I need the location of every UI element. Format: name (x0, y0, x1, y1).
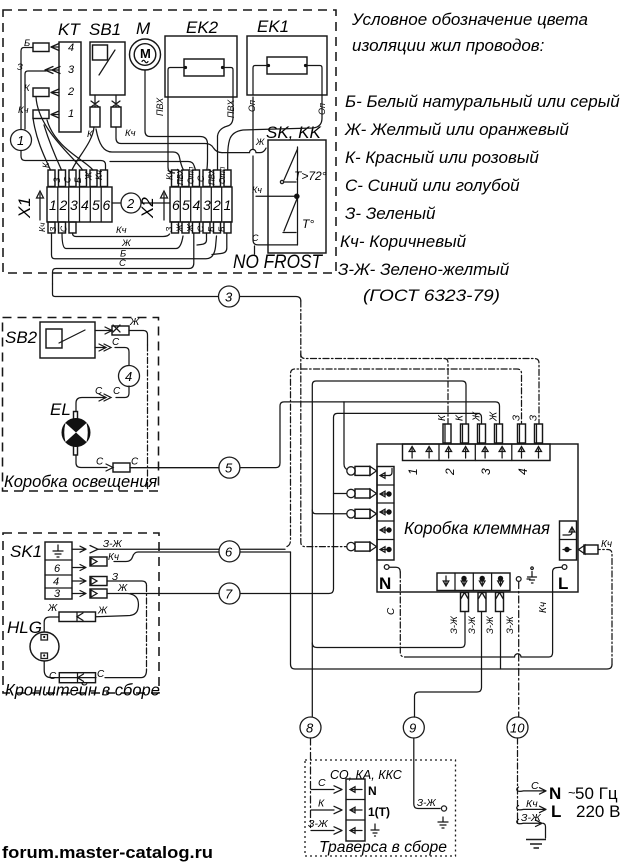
node 6 (219, 541, 240, 562)
svg-text:З-Ж: З-Ж (521, 812, 542, 824)
thermal switches SK KK label (266, 123, 321, 142)
svg-text:5: 5 (225, 461, 233, 476)
svg-text:7: 7 (225, 587, 233, 602)
branch to left lug 2 (334, 493, 348, 495)
labels С С at HLG С connector (49, 669, 105, 682)
wire З down to HLG С connector (105, 581, 147, 678)
connector X1 body (47, 187, 112, 222)
left side connectors (347, 466, 377, 551)
wire HLG bottom to С connector (44, 661, 96, 678)
fan wire to X1 lug 5 (47, 120, 93, 170)
svg-text:3: 3 (203, 197, 211, 213)
svg-text:З: З (512, 415, 523, 421)
KT pin numbers 4 3 2 1 (67, 42, 75, 120)
switch SK1 body (45, 542, 72, 599)
KT connector lug row 1 (Кч) (33, 110, 49, 119)
node 5 (219, 457, 240, 478)
svg-text:С: С (97, 669, 105, 680)
svg-text:С: С (95, 386, 103, 397)
wire label З (17, 62, 23, 73)
loop wire С below terminals (53, 233, 194, 284)
wire label Кч (18, 105, 29, 116)
terminal box bottom strip (437, 573, 510, 591)
KT pin 1 arrow (51, 111, 59, 118)
caption Коробка освещения (4, 473, 157, 491)
HLG label (7, 618, 42, 637)
terminal box body (377, 444, 578, 592)
svg-text:Кч: Кч (116, 225, 127, 236)
svg-text:Б: Б (217, 226, 227, 232)
legend lines (338, 92, 620, 305)
svg-text:Траверса в сборе: Траверса в сборе (319, 839, 447, 856)
svg-text:NO FROST: NO FROST (233, 252, 323, 273)
top pin lugs (443, 424, 543, 443)
right side block (560, 521, 577, 560)
node 7 (219, 583, 240, 604)
label T>72 (294, 169, 327, 183)
SK upper contact (280, 180, 296, 183)
legend title (351, 10, 588, 55)
svg-text:X2: X2 (138, 197, 157, 219)
N mains label (549, 784, 618, 803)
KT pin 4 arrow (51, 44, 59, 51)
wire З-Ж from SK1 row (98, 548, 285, 550)
svg-text:1: 1 (17, 133, 24, 148)
SB1 right wire joining Ж line (116, 127, 222, 153)
svg-text:Кч: Кч (94, 170, 104, 180)
svg-text:1: 1 (406, 468, 420, 475)
svg-text:SB2: SB2 (5, 328, 38, 347)
SK KK blue stub (254, 246, 256, 254)
KK lower blade (284, 198, 298, 232)
sweep wire to X2 lug 5 (96, 129, 184, 170)
svg-text:ПВХ: ПВХ (176, 168, 185, 185)
svg-text:З-Ж: З-Ж (103, 539, 122, 550)
svg-text:T>72°: T>72° (294, 169, 327, 183)
loop wire Б below terminals (52, 233, 217, 259)
stub wire X2 lug1 below (212, 233, 227, 255)
connector X2 label (138, 197, 157, 219)
label Кч (SK1) (108, 552, 119, 563)
wire node 4 to lamp (76, 386, 129, 412)
SK upper blade (284, 149, 298, 180)
wire node 5 feeder to Ж4 (130, 402, 500, 468)
NO FROST unit dashed enclosure (3, 10, 336, 273)
svg-text:З: З (17, 62, 23, 73)
svg-text:L: L (551, 802, 561, 821)
wire Кч into SK KK (256, 195, 294, 197)
svg-text:Ж: Ж (255, 137, 265, 147)
traverse assembly dotted enclosure (Траверса в сборе) (305, 760, 456, 856)
svg-text:N: N (379, 574, 391, 593)
svg-text:Оп: Оп (247, 100, 257, 112)
svg-text:Условное обозначение цвета: Условное обозначение цвета (351, 10, 588, 29)
svg-text:Кч: Кч (37, 222, 47, 232)
label С at SK KK (252, 233, 259, 243)
heater EK2 label (186, 18, 219, 37)
X1 numbers (49, 197, 111, 213)
watermark forum.master-catalog.ru (2, 843, 213, 862)
label Кч right of box (601, 539, 612, 550)
svg-text:Б: Б (73, 177, 83, 183)
SK1 З connector (90, 577, 107, 586)
switch SB2 body (40, 322, 95, 358)
NO FROST caption (233, 252, 323, 273)
wire Ж into SK KK (222, 148, 266, 153)
fan wire KT row2 to X1 lug 4 (36, 97, 83, 170)
svg-text:Ж- Желтый или оранжевый: Ж- Желтый или оранжевый (344, 120, 569, 139)
svg-text:Кч- Коричневый: Кч- Коричневый (340, 232, 467, 251)
svg-text:ПВХ: ПВХ (208, 168, 217, 185)
З-Ж splice arrow (90, 546, 98, 553)
svg-text:Ж: Ж (129, 317, 140, 328)
SK1 pin numbers (53, 563, 61, 600)
node 2 tie line (112, 202, 170, 204)
label ПВХ left of EK2 (155, 97, 165, 116)
svg-text:KT: KT (58, 20, 81, 39)
svg-text:С- Синий или голубой: С- Синий или голубой (345, 176, 520, 195)
top strip arrows (409, 447, 541, 459)
SK1 Кч connector (90, 557, 107, 566)
З-Ж pins below box (461, 593, 504, 612)
EK2 left lead to X2 lug 6 (168, 97, 175, 173)
lamp EL label (50, 400, 71, 419)
svg-text:Кч: Кч (125, 128, 136, 139)
svg-text:Б- Белый натуральный или серый: Б- Белый натуральный или серый (345, 92, 620, 111)
N terminal (379, 565, 391, 593)
labels С С at lamp connector (96, 457, 139, 468)
branch Кч to L mains (517, 806, 546, 813)
wire Кч bus to connector (291, 550, 613, 670)
thermostat KT body (59, 42, 81, 132)
terminal box top strip (403, 444, 551, 461)
label С below (119, 258, 126, 269)
switch SB2 label (5, 328, 38, 347)
svg-text:(ГОСТ 6323-79): (ГОСТ 6323-79) (363, 286, 500, 305)
label Кч at SK KK (252, 185, 262, 195)
X2 numbers (172, 197, 231, 213)
wire feeder F1 to pins К1 З6 (301, 354, 539, 424)
svg-text:L: L (558, 574, 568, 593)
top pin labels К К Ж Ж З З (437, 411, 540, 422)
loop wire Ж below terminals (62, 233, 183, 249)
svg-text:С: С (196, 225, 206, 232)
bottom strip arrows and dots (443, 576, 503, 586)
heater EK1 element (267, 57, 307, 74)
label С under N (386, 607, 397, 615)
X1 orientation arrow (37, 191, 44, 220)
svg-text:SB1: SB1 (89, 20, 121, 39)
caption Траверса в сборе (319, 839, 447, 856)
svg-text:З-Ж: З-Ж (417, 798, 436, 809)
svg-text:6: 6 (225, 544, 233, 559)
З-Ж pin labels (449, 615, 516, 634)
svg-text:ПВХ: ПВХ (226, 99, 236, 118)
svg-text:4: 4 (125, 369, 132, 384)
label З-Ж (SK1) (103, 539, 122, 550)
svg-text:К- Красный или розовый: К- Красный или розовый (345, 148, 539, 167)
svg-text:5: 5 (182, 197, 190, 213)
earth terminal circle (516, 577, 521, 582)
heater EK2 enclosure (165, 36, 237, 97)
motor wire to X2 lug 3 (145, 70, 208, 170)
SB1 contact detail (93, 45, 116, 75)
wire label К (24, 83, 31, 94)
svg-text:1: 1 (49, 197, 57, 213)
svg-text:2: 2 (212, 197, 221, 213)
label ПВХ right of EK2 (226, 99, 236, 118)
svg-text:6: 6 (103, 197, 111, 213)
svg-text:Кч: Кч (538, 602, 549, 613)
label Кч below (116, 225, 127, 236)
SB1 connector lugs (90, 107, 121, 127)
svg-text:С: С (386, 607, 397, 615)
X1 lower connector lugs (48, 222, 76, 233)
caption Коробка клеммная (404, 518, 550, 538)
HLG Ж double connector (59, 612, 96, 622)
svg-text:Кч: Кч (601, 539, 612, 550)
wire HLG top to Ж connector (44, 617, 59, 632)
connector X2 body (170, 187, 232, 222)
SK1 Ж connector (90, 589, 107, 598)
label Кч under L (538, 602, 549, 613)
label С (mains) (531, 780, 539, 792)
svg-text:Кронштейн в сборе: Кронштейн в сборе (5, 682, 160, 700)
svg-text:изоляции жил проводов:: изоляции жил проводов: (352, 36, 545, 55)
terminal box left strip (377, 467, 394, 561)
SK1 row arrows (72, 546, 86, 596)
svg-text:9: 9 (409, 721, 416, 736)
svg-text:М: М (140, 46, 151, 61)
earth symbol at bottom strip (527, 567, 537, 583)
left strip arrows and dots (380, 469, 392, 553)
loop wire Кч below terminals (73, 233, 170, 237)
wire lamp to С connector (76, 455, 107, 468)
svg-text:Отп: Отп (218, 166, 227, 184)
lamp EL (62, 412, 90, 456)
wire З-Ж pin3 to Кч line (500, 612, 502, 670)
KT pin 2 arrow (51, 89, 59, 96)
wire label Кч (motor) (125, 128, 136, 139)
svg-text:6: 6 (54, 563, 61, 575)
wire node 8 to traverse box (310, 738, 312, 828)
wire Ж hook to HLG top connector (96, 594, 138, 617)
SK KK body (268, 140, 326, 253)
wire З-Ж pin2 to node 9 (415, 612, 482, 718)
svg-text:T°: T° (302, 217, 314, 231)
svg-text:Ж: Ж (84, 171, 94, 181)
svg-text:X1: X1 (15, 197, 34, 219)
X1 upper lug labels К З С Б Ж Кч (41, 162, 104, 183)
wire label К (SB1) (87, 129, 94, 140)
svg-text:З-Ж: З-Ж (505, 615, 516, 634)
EK2 element leads (168, 68, 233, 98)
svg-text:2: 2 (126, 196, 135, 211)
X1 lower lug labels (37, 222, 69, 232)
KT connector lug row 4 (Б) (33, 43, 49, 52)
svg-text:Ж: Ж (489, 411, 500, 422)
svg-text:Отп: Отп (187, 166, 196, 184)
caption Кронштейн в сборе (5, 682, 160, 700)
svg-text:Кч: Кч (18, 105, 29, 116)
svg-text:SK, KK: SK, KK (266, 123, 321, 142)
label З-Ж (mains) (521, 812, 542, 824)
earth wire to node 10 (518, 582, 520, 718)
SK KK inner conductor (297, 147, 299, 245)
branch З-Ж to earth (517, 819, 546, 838)
svg-text:50 Гц: 50 Гц (575, 784, 618, 803)
switch SB1 label (89, 20, 121, 39)
svg-text:Ж: Ж (175, 223, 185, 233)
node 4 (119, 366, 140, 387)
branch to left lug 3 (312, 510, 347, 514)
svg-text:З-Ж- Зелено-желтый: З-Ж- Зелено-желтый (338, 260, 510, 279)
X1 upper connector lugs (48, 170, 108, 187)
wire node 10 down (517, 738, 519, 824)
SB2 С arrow (95, 344, 111, 351)
svg-text:1: 1 (224, 197, 232, 213)
svg-text:З: З (164, 226, 174, 232)
fan wire to X1 lug 2 (44, 125, 62, 170)
svg-text:forum.master-catalog.ru: forum.master-catalog.ru (2, 843, 213, 862)
thermostat KT label (58, 20, 81, 39)
group numbers 1-4 (406, 468, 530, 476)
svg-text:3: 3 (54, 588, 61, 600)
svg-text:С: С (196, 175, 206, 182)
label Оп right of EK1 (317, 103, 327, 115)
label Ж at SK KK (255, 137, 265, 147)
wire label Б (24, 38, 30, 49)
wire node 9 to З-Ж terminal (414, 738, 440, 809)
L mains label (551, 802, 620, 821)
svg-text:5: 5 (92, 197, 100, 213)
mains earth symbol (526, 840, 546, 849)
node 9 (403, 717, 424, 738)
KK lower contact (283, 232, 296, 234)
svg-text:2: 2 (67, 86, 74, 98)
svg-text:К: К (318, 798, 325, 810)
svg-text:220 В: 220 В (576, 802, 620, 821)
caption СО КА ККС (330, 768, 403, 782)
bracket assembly dashed enclosure (Кронштейн в сборе) (3, 533, 159, 693)
label Ж (SK1) (117, 583, 128, 594)
L terminal (558, 565, 568, 593)
switch SK1 label (10, 542, 42, 561)
С connector below lamp (106, 463, 130, 472)
svg-text:4: 4 (53, 576, 59, 588)
svg-text:Ж: Ж (472, 411, 483, 422)
svg-text:2: 2 (443, 468, 457, 476)
svg-text:С: С (113, 386, 121, 397)
svg-text:Б: Б (206, 226, 216, 232)
label T deg (302, 217, 314, 231)
node 8 (300, 717, 321, 738)
heater EK1 enclosure (247, 36, 327, 95)
svg-text:3: 3 (479, 468, 493, 475)
EK2 right lead to X2 lug 2 (218, 97, 234, 170)
motor M symbol (130, 39, 161, 70)
label Ж (SB2) (129, 317, 140, 328)
svg-text:EK1: EK1 (257, 17, 289, 36)
svg-text:2: 2 (59, 197, 68, 213)
wire Ж down inside lighting box (129, 331, 148, 491)
SB1 lead wires (95, 95, 116, 107)
svg-text:N: N (549, 784, 561, 803)
X2 upper connector lugs (172, 170, 232, 187)
svg-text:С: С (96, 457, 104, 468)
Кч connector right of box (579, 545, 599, 554)
label С (SB2) (112, 337, 120, 348)
X2 lower connector lugs (172, 222, 232, 233)
right block arrow up (563, 527, 575, 535)
connector X1 label (15, 197, 34, 219)
svg-text:Ж: Ж (121, 238, 132, 249)
svg-text:М: М (136, 19, 151, 38)
junction dot Кч in SK KK (294, 194, 300, 200)
svg-text:EK2: EK2 (186, 18, 219, 37)
svg-text:Коробка освещения: Коробка освещения (4, 473, 157, 491)
traverse left wires С К З-Ж (308, 777, 342, 834)
branch С to N mains (517, 787, 546, 794)
svg-text:З-Ж: З-Ж (449, 615, 460, 634)
label Оп left of EK1 (247, 100, 257, 112)
svg-text:ПВХ: ПВХ (155, 97, 165, 116)
svg-text:З-Ж: З-Ж (485, 615, 496, 634)
node 10 (507, 717, 528, 738)
svg-text:8: 8 (306, 721, 314, 736)
lighting box dashed enclosure (Коробка освещения) (3, 318, 159, 492)
svg-text:З- Зеленый: З- Зеленый (345, 204, 436, 223)
label Кч (mains) (526, 798, 538, 810)
wire from node 1 to X1 lug 6 (21, 151, 106, 171)
branch to left lug 1 (344, 402, 349, 471)
node 1 (11, 130, 32, 151)
heater EK2 element (184, 59, 224, 76)
X2 lower lug labels (164, 223, 227, 233)
wire Б from KT to node 1 (21, 48, 33, 130)
svg-text:З: З (48, 226, 58, 232)
switch SB1 body (90, 42, 125, 95)
svg-text:С: С (59, 225, 69, 232)
svg-text:3: 3 (68, 64, 75, 76)
svg-text:Ж: Ж (117, 583, 128, 594)
З-Ж terminal with circle (417, 798, 447, 811)
wire node 8 riser and feeder to К2 (312, 381, 466, 717)
HLG lamp body (30, 632, 59, 661)
fan wire KT row1 to X1 lug 1 (33, 118, 51, 170)
X2 upper lug labels (165, 166, 228, 185)
svg-text:З: З (529, 415, 540, 421)
traverse terminal strip (346, 779, 365, 841)
svg-text:Ж: Ж (185, 223, 195, 233)
svg-text:С: С (119, 258, 126, 269)
traverse right labels (368, 784, 390, 819)
svg-text:З-Ж: З-Ж (467, 615, 478, 634)
HLG С double connector (59, 673, 95, 683)
svg-text:З: З (52, 177, 62, 183)
SB1 connector X marks (91, 101, 120, 107)
motor M label (136, 19, 151, 38)
svg-text:3: 3 (225, 290, 233, 305)
svg-text:4: 4 (193, 197, 201, 213)
node 3 (219, 286, 240, 307)
node 2 (121, 193, 141, 213)
EK1 element leads (253, 66, 322, 96)
labels С С at node4 wire (95, 386, 121, 397)
svg-text:С: С (252, 233, 259, 243)
svg-text:SK1: SK1 (10, 542, 42, 561)
stub wire X2 lug3 below (197, 233, 207, 245)
